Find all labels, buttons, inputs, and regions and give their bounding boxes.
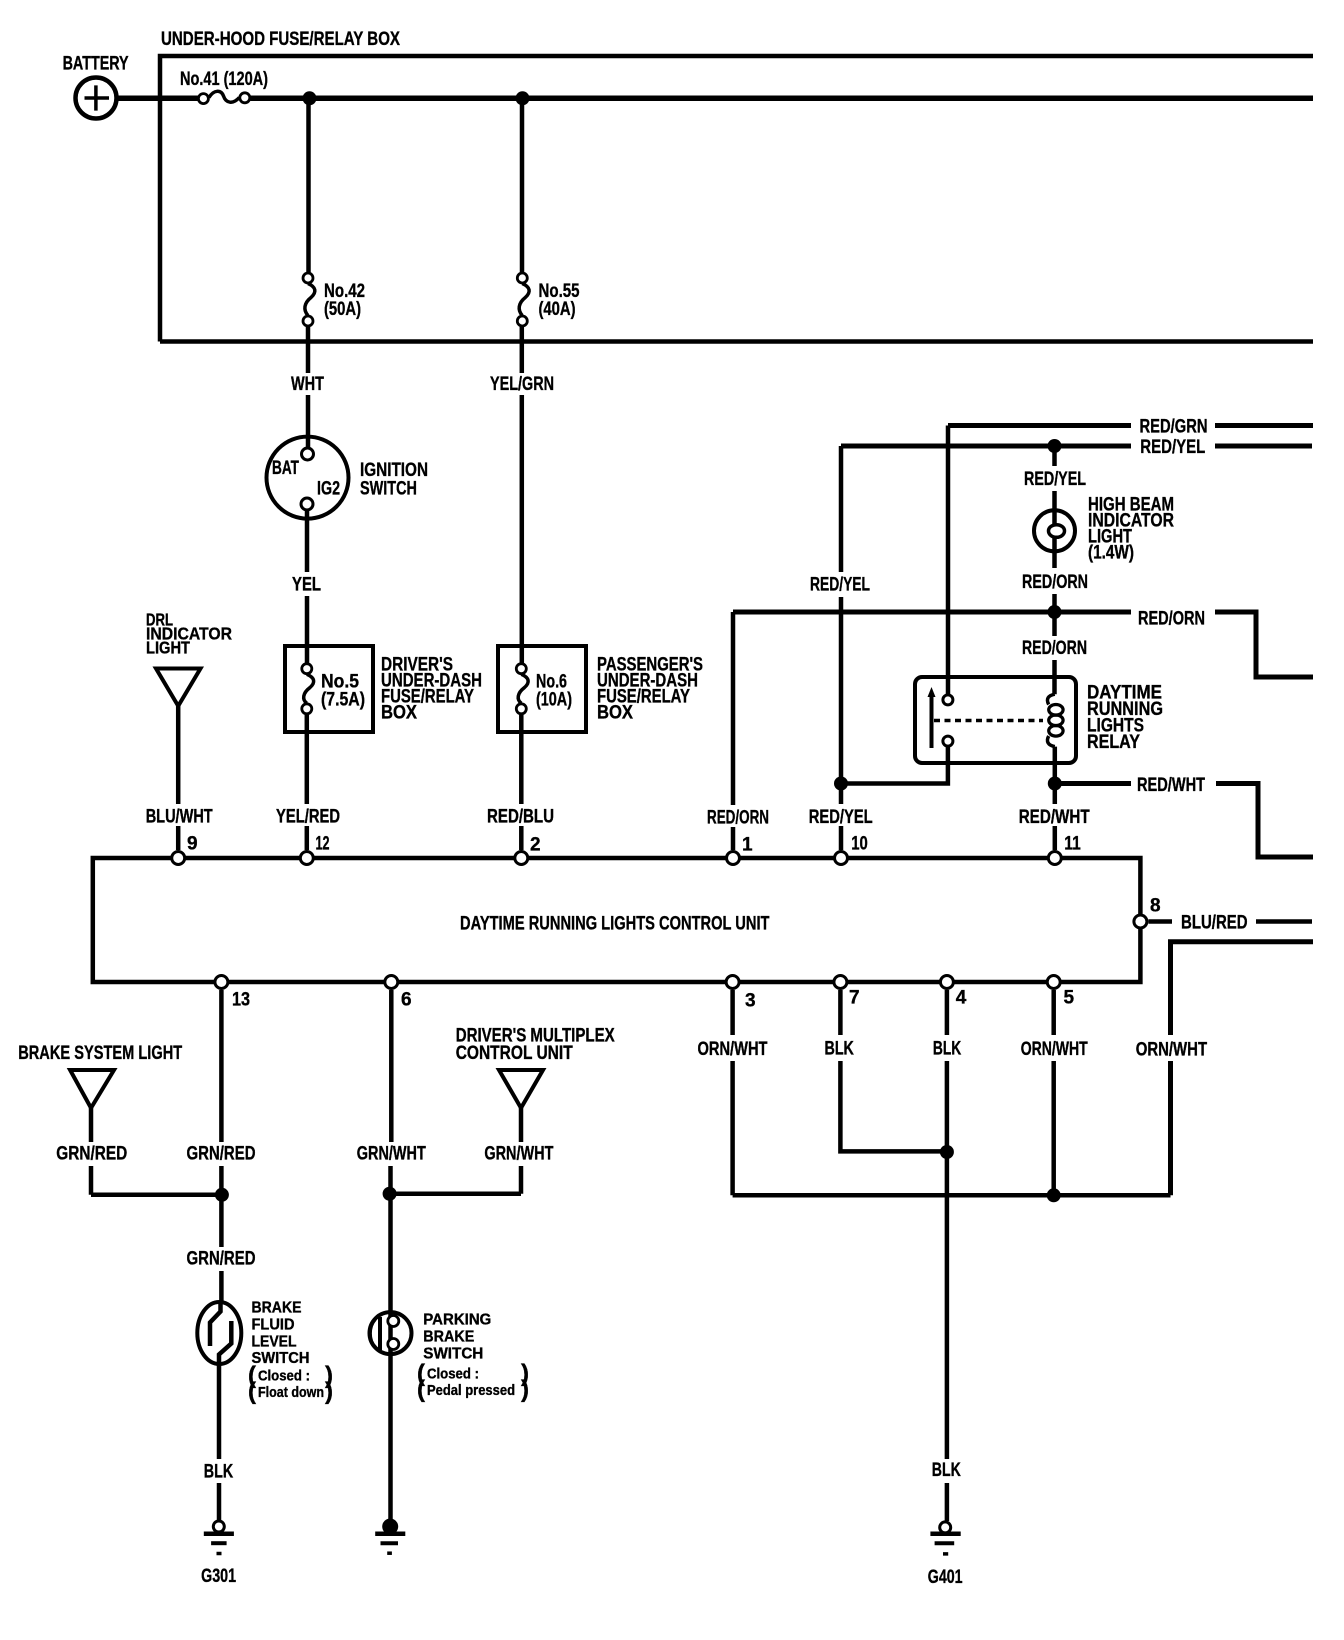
passenger's under-dash fuse/relay box — [498, 646, 703, 732]
pin 5 — [1047, 976, 1074, 1009]
junction dot GRN/RED — [215, 1188, 229, 1202]
wire RED/YEL down to pin 10 — [809, 446, 873, 850]
wire YEL — [292, 511, 321, 663]
wire BLU/WHT to pin 9 — [146, 706, 213, 850]
svg-text:G301: G301 — [201, 1566, 236, 1587]
wire relay switch to RED/GRN — [946, 426, 951, 695]
wire BLK to G301 — [204, 1365, 234, 1520]
svg-text:3: 3 — [745, 991, 756, 1012]
svg-text:1: 1 — [742, 835, 753, 856]
svg-text:FLUID: FLUID — [252, 1317, 295, 1334]
svg-text:11: 11 — [1064, 834, 1081, 855]
under-hood fuse/relay box — [160, 29, 1313, 342]
wire RED/WHT horizontal to right edge — [1055, 775, 1313, 857]
wire WHT — [291, 327, 324, 448]
parking brake switch — [370, 1312, 530, 1404]
svg-text:SWITCH: SWITCH — [423, 1346, 483, 1363]
svg-text:BAT: BAT — [272, 458, 299, 479]
svg-text:BLK: BLK — [204, 1462, 234, 1483]
svg-text:LIGHT: LIGHT — [146, 638, 190, 658]
pin 1 — [727, 835, 754, 865]
svg-text:BLU/RED: BLU/RED — [1181, 913, 1248, 934]
pin 4 — [940, 976, 966, 1009]
fuse No.5 (7.5A) — [302, 664, 365, 714]
junction dot RED/YEL branch — [1048, 439, 1062, 453]
svg-text:RED/YEL: RED/YEL — [1024, 469, 1086, 490]
wire GRN/WHT from multiplex unit — [484, 1108, 553, 1194]
svg-text:No.41 (120A): No.41 (120A) — [180, 69, 268, 90]
DRL indicator light — [146, 610, 232, 707]
svg-text:BOX: BOX — [597, 703, 633, 724]
junction dot GRN/WHT — [383, 1187, 397, 1201]
svg-text:RELAY: RELAY — [1087, 732, 1140, 753]
wire RED/YEL to high beam bulb — [1024, 446, 1086, 525]
svg-text:GRN/WHT: GRN/WHT — [484, 1144, 553, 1165]
svg-text:(10A): (10A) — [536, 690, 572, 711]
pin 13 — [215, 976, 250, 1011]
svg-text:BLK: BLK — [932, 1460, 961, 1481]
wire joining GRN/WHT to pin 6 — [390, 1192, 521, 1197]
svg-text:8: 8 — [1150, 896, 1161, 917]
wire to fuse No.55 — [520, 98, 525, 272]
svg-text:BLK: BLK — [825, 1039, 855, 1060]
svg-text:BRAKE: BRAKE — [423, 1329, 474, 1346]
ground (parking brake) — [375, 1519, 405, 1554]
svg-text:LEVEL: LEVEL — [252, 1334, 297, 1351]
wire ORN/WHT from pin 5 — [1021, 990, 1088, 1195]
svg-text:4: 4 — [956, 988, 967, 1009]
svg-text:Pedal pressed: Pedal pressed — [427, 1382, 515, 1399]
svg-text:BLU/WHT: BLU/WHT — [146, 807, 213, 828]
wire BLK from pin 4 to G401 — [932, 990, 962, 1521]
wire RED/ORN down to pin 1 — [707, 612, 769, 850]
brake fluid level switch — [197, 1300, 333, 1406]
svg-text:RED/WHT: RED/WHT — [1137, 775, 1205, 796]
pin 8 — [1134, 896, 1161, 929]
svg-text:YEL: YEL — [292, 575, 321, 596]
svg-text:13: 13 — [232, 990, 250, 1011]
junction dot at No.55 branch — [516, 91, 530, 105]
svg-text:(7.5A): (7.5A) — [321, 690, 365, 711]
svg-text:Closed :: Closed : — [427, 1366, 479, 1383]
svg-text:PARKING: PARKING — [423, 1312, 491, 1329]
pin 3 — [726, 976, 755, 1012]
wire GRN/RED from brake system light — [56, 1108, 127, 1195]
pin 10 — [835, 834, 868, 865]
svg-text:RED/WHT: RED/WHT — [1019, 807, 1090, 828]
wire battery feed (main bus) — [118, 96, 1313, 102]
daytime running lights control unit — [93, 858, 1141, 982]
svg-text:IG2: IG2 — [317, 479, 340, 500]
svg-text:(1.4W): (1.4W) — [1088, 543, 1134, 564]
svg-text:CONTROL UNIT: CONTROL UNIT — [456, 1043, 573, 1064]
svg-text:): ) — [521, 1376, 529, 1403]
svg-text:Closed :: Closed : — [258, 1368, 310, 1385]
wire RED/YEL horizontal — [841, 437, 1312, 458]
pin 2 — [515, 835, 541, 865]
svg-text:RED/BLU: RED/BLU — [487, 807, 554, 828]
svg-text:RED/YEL: RED/YEL — [810, 575, 870, 596]
fuse No.55 (40A) — [517, 273, 580, 326]
junction dot BLK — [940, 1145, 954, 1159]
fuse No.42 (50A) — [303, 273, 365, 326]
svg-text:12: 12 — [316, 834, 330, 855]
pin 11 — [1048, 834, 1081, 865]
svg-text:RED/ORN: RED/ORN — [1022, 638, 1087, 659]
driver's multiplex control unit — [456, 1026, 615, 1109]
junction dot relay switch return — [834, 777, 848, 791]
wire ORN/WHT bus — [733, 1193, 1171, 1198]
ground G401 — [928, 1522, 963, 1588]
ground G301 — [201, 1521, 236, 1587]
wire joining GRN/RED to pin 13 — [91, 1193, 222, 1198]
high beam indicator light (1.4W) — [1034, 495, 1174, 564]
svg-text:BRAKE: BRAKE — [252, 1300, 302, 1317]
svg-text:YEL/RED: YEL/RED — [276, 807, 340, 828]
svg-text:GRN/RED: GRN/RED — [56, 1144, 127, 1165]
svg-text:5: 5 — [1064, 988, 1075, 1009]
wire YEL/RED to pin 12 — [276, 714, 340, 850]
svg-text:7: 7 — [849, 988, 860, 1009]
junction dot RED/ORN branch — [1048, 605, 1062, 619]
wire relay coil to pin 11 RED/WHT — [1019, 747, 1090, 850]
ignition switch — [267, 437, 429, 519]
svg-text:9: 9 — [187, 834, 198, 855]
pin 6 — [385, 976, 412, 1011]
pin 12 — [300, 834, 329, 865]
wire ORN/WHT from pin 3 — [698, 990, 768, 1195]
svg-text:(40A): (40A) — [539, 299, 576, 320]
svg-text:BRAKE SYSTEM LIGHT: BRAKE SYSTEM LIGHT — [18, 1043, 182, 1064]
svg-text:BLK: BLK — [933, 1039, 962, 1060]
wire parking brake switch to ground — [388, 1356, 393, 1520]
junction dot ORN/WHT bus — [1047, 1188, 1061, 1202]
wire RED/GRN — [948, 417, 1313, 438]
svg-text:(: ( — [417, 1376, 425, 1403]
svg-text:YEL/GRN: YEL/GRN — [490, 374, 554, 395]
svg-text:GRN/RED: GRN/RED — [187, 1249, 256, 1270]
wire to fuse No.42 — [306, 98, 311, 272]
fuse No.41 (120A) — [180, 69, 268, 104]
driver's under-dash fuse/relay box — [285, 646, 482, 732]
svg-text:SWITCH: SWITCH — [252, 1350, 310, 1367]
battery — [63, 54, 129, 119]
wire GRN/WHT from pin 6 — [357, 990, 426, 1356]
svg-text:RED/ORN: RED/ORN — [1022, 572, 1088, 593]
fuse No.6 (10A) — [516, 664, 572, 714]
svg-text:RED/YEL: RED/YEL — [1140, 437, 1205, 458]
svg-text:UNDER-HOOD FUSE/RELAY BOX: UNDER-HOOD FUSE/RELAY BOX — [161, 29, 400, 50]
svg-text:BOX: BOX — [381, 703, 417, 724]
wire ORN/WHT from right edge — [1136, 942, 1313, 1196]
wire RED/ORN bulb to relay coil — [1022, 537, 1088, 694]
svg-text:ORN/WHT: ORN/WHT — [1021, 1039, 1088, 1060]
wire RED/BLU to pin 2 — [487, 714, 554, 850]
svg-text:RED/ORN: RED/ORN — [707, 808, 769, 829]
svg-text:Float down: Float down — [258, 1384, 324, 1401]
pin 9 — [172, 834, 198, 865]
wire YEL/GRN — [490, 327, 554, 664]
svg-text:SWITCH: SWITCH — [360, 479, 417, 500]
wire BLU/RED from pin 8 — [1148, 913, 1312, 934]
svg-text:RED/ORN: RED/ORN — [1138, 609, 1205, 630]
pin 7 — [834, 976, 860, 1009]
svg-text:BATTERY: BATTERY — [63, 54, 129, 75]
daytime running lights relay — [915, 677, 1163, 763]
svg-text:G401: G401 — [928, 1567, 963, 1588]
junction dot RED/WHT branch — [1048, 777, 1062, 791]
svg-text:GRN/WHT: GRN/WHT — [357, 1144, 426, 1165]
svg-text:10: 10 — [851, 834, 868, 855]
svg-text:GRN/RED: GRN/RED — [187, 1144, 256, 1165]
junction dot at No.42 branch — [303, 91, 317, 105]
brake system light — [18, 1043, 182, 1108]
svg-text:2: 2 — [530, 835, 541, 856]
svg-text:6: 6 — [401, 990, 412, 1011]
svg-text:(: ( — [248, 1378, 256, 1405]
wire BLK from pin 7 — [825, 990, 947, 1151]
svg-text:(50A): (50A) — [324, 299, 361, 320]
svg-text:DAYTIME RUNNING LIGHTS CONTROL: DAYTIME RUNNING LIGHTS CONTROL UNIT — [460, 914, 770, 935]
wire relay switch return to RED/YEL — [841, 747, 948, 784]
svg-text:): ) — [325, 1378, 333, 1405]
svg-text:RED/GRN: RED/GRN — [1140, 417, 1208, 438]
svg-text:ORN/WHT: ORN/WHT — [698, 1039, 768, 1060]
svg-text:RED/YEL: RED/YEL — [809, 807, 873, 828]
wire GRN/RED from pin 13 — [187, 990, 256, 1301]
svg-text:ORN/WHT: ORN/WHT — [1136, 1040, 1208, 1061]
wire RED/ORN horizontal to right edge — [733, 609, 1313, 678]
svg-text:WHT: WHT — [291, 374, 324, 395]
